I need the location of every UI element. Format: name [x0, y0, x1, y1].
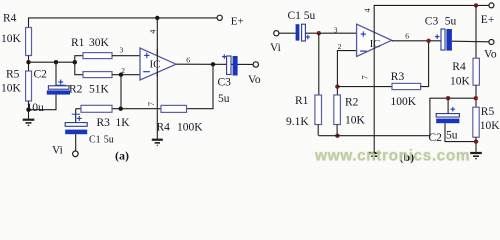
svg-text:R4: R4 [452, 61, 466, 73]
op-amp (a) vertical line through [156, 49, 158, 77]
svg-text:10K: 10K [480, 120, 500, 132]
wire C2 stem top (b) [447, 98, 449, 113]
wire R3 to feedback corner (b) [421, 41, 429, 87]
capacitor C1 (a) plus mark [72, 114, 82, 121]
node rail junction (b) [335, 134, 339, 138]
node R1 top junction (b) [317, 31, 321, 35]
svg-text:Vo: Vo [248, 74, 261, 86]
svg-text:6: 6 [186, 55, 190, 64]
node R3 right junction (a) [119, 107, 123, 111]
label 1K of R3 (a) [116, 117, 131, 129]
wire IC pin4/pin7 vertical (a) [156, 18, 158, 139]
label R2 (a) [69, 84, 83, 96]
svg-text:R3: R3 [97, 117, 111, 129]
wire C2 stem top (a) [55, 62, 57, 85]
svg-text:R3: R3 [391, 71, 405, 83]
svg-text:7: 7 [147, 102, 156, 106]
svg-text:IC: IC [370, 39, 381, 50]
wire bias node to R1/R2 (a) [29, 61, 75, 63]
wire C1 stem top (a) [75, 109, 77, 123]
wire C3 to Vo (b) [452, 40, 489, 43]
label R3 (a) [97, 117, 111, 129]
svg-text:Vi: Vi [270, 42, 281, 54]
label 10K of R5 (a) [1, 83, 22, 95]
label C1 (b) [288, 10, 302, 22]
terminal E+ (a) [217, 15, 222, 20]
svg-text:5u: 5u [446, 129, 458, 141]
svg-text:5u: 5u [304, 10, 316, 22]
svg-text:E+: E+ [231, 15, 244, 27]
capacitor C3 (b) plus mark [435, 34, 440, 39]
wire pin2 to R2 (b) [337, 51, 356, 95]
capacitor C3 (a) left plate [227, 56, 231, 75]
wire pin2 to R3 node (a) [120, 75, 122, 109]
node C2 return junction (b) [474, 139, 478, 143]
label 100K (a) [177, 122, 203, 134]
op-amp U2 triangle (b) [357, 24, 392, 56]
resistor R4 (a) 10K vertical [26, 28, 32, 56]
wire feedback R4 (a) [187, 64, 214, 108]
label 10K of R5 (b) [480, 120, 500, 132]
svg-text:10K: 10K [1, 33, 22, 45]
label Vi (b) [270, 42, 281, 54]
capacitor C1 (a) top plate [65, 123, 87, 127]
resistor R3 (a) 1K [81, 105, 112, 112]
wire C1 stem bottom (a) [75, 134, 77, 151]
node C2 tap junction (b) [446, 96, 450, 100]
wire C2 stem bottom (b) [445, 123, 476, 141]
svg-text:2: 2 [338, 42, 342, 51]
svg-text:R1: R1 [295, 95, 309, 107]
pin number 6 (b) [405, 31, 409, 40]
label 10K of R2 (b) [345, 115, 366, 127]
pin number 4 (a) [148, 30, 157, 34]
svg-text:10K: 10K [345, 115, 366, 127]
label 9.1K of R1 (b) [286, 116, 309, 128]
op-amp (b) vertical line through [373, 25, 375, 53]
resistor R1 (b) 9.1K [315, 95, 322, 125]
label R3 (b) [391, 71, 405, 83]
svg-text:C2: C2 [34, 69, 48, 81]
label (b) caption [400, 150, 415, 164]
wire C2 stem bottom (a) [29, 95, 57, 110]
ground symbol IC (b) [368, 153, 380, 159]
wire R4 to R5 (b) [475, 85, 477, 107]
wire R1 column (b) [318, 33, 320, 95]
svg-text:51K: 51K [89, 84, 110, 96]
node E+ rail junction (b) [474, 3, 478, 7]
label IC (a) [150, 59, 161, 71]
wire R3 net (b) [337, 86, 392, 88]
resistor R2 (a) 51K [83, 72, 112, 78]
capacitor C1 (b) left plate [296, 24, 300, 40]
wire output (b) [392, 40, 441, 42]
svg-text:C1: C1 [89, 135, 101, 146]
svg-text:2: 2 [121, 66, 125, 75]
terminal Vo (b) [489, 40, 494, 45]
svg-text:5u: 5u [218, 93, 230, 105]
terminal Vi (b) [274, 31, 279, 36]
label 30K of R1 (a) [89, 37, 110, 49]
wire R4 to R5 (a) [28, 56, 30, 72]
svg-text:7: 7 [361, 75, 370, 79]
svg-text:3: 3 [120, 45, 124, 54]
label C3 (a) [218, 76, 232, 88]
label (a) caption [115, 148, 129, 162]
op-amp (a) minus input mark [143, 71, 150, 73]
label R5 (a) [6, 69, 20, 81]
label C2 (a) [34, 69, 48, 81]
node R5-ground / C2 return junction (a) [26, 108, 30, 112]
capacitor C2 (b) plus mark [451, 107, 456, 112]
capacitor C2 (a) bottom plate [47, 90, 70, 94]
op-amp U1 triangle (a) [140, 48, 176, 80]
svg-text:1K: 1K [116, 117, 131, 129]
svg-text:10u: 10u [27, 102, 45, 114]
pin number 3 (b) [334, 25, 338, 34]
label IC (b) [370, 39, 381, 50]
terminal E+ (b) [489, 3, 494, 8]
pin number 4 (b) [363, 8, 372, 12]
svg-text:Vi: Vi [52, 144, 63, 156]
label R4 (a) [3, 12, 17, 24]
svg-text:5u: 5u [104, 135, 114, 146]
svg-text:100K: 100K [391, 96, 417, 108]
svg-text:R5: R5 [6, 69, 20, 81]
resistor R5 (b) 10K [473, 107, 479, 137]
label 5u of C2 (b) [446, 129, 458, 141]
capacitor C1 (a) bottom plate [65, 130, 87, 135]
wire R2 to pin2 (a) [112, 74, 140, 76]
resistor R2 (b) 10K [334, 95, 341, 125]
svg-text:6: 6 [405, 31, 409, 40]
wire IC pin7 to ground (b) [373, 53, 375, 152]
label C2 (b) [429, 132, 443, 144]
pin number 6 (a) [186, 55, 190, 64]
wire output (a) [176, 63, 253, 65]
label R1 (b) [295, 95, 309, 107]
svg-text:5u: 5u [445, 15, 457, 27]
svg-text:www.cntronics.com: www.cntronics.com [314, 148, 470, 165]
capacitor C3 (b) left plate [441, 29, 445, 50]
pin number 3 (a) [120, 45, 124, 54]
label 10K of R4 (b) [450, 75, 471, 87]
node R3 tee junction (b) [335, 84, 339, 88]
node R4/R5 divider junction (b) [474, 96, 478, 100]
svg-text:Vo: Vo [484, 49, 497, 61]
label C3 (b) [425, 15, 439, 27]
ground symbol IC (a) [152, 140, 163, 146]
svg-text:R5: R5 [481, 106, 495, 118]
wire R5 to ground (b) [475, 137, 477, 152]
svg-text:4: 4 [148, 30, 157, 34]
label R5 (b) [481, 106, 495, 118]
svg-text:R4: R4 [3, 12, 17, 24]
wire top supply rail (a) [29, 18, 218, 28]
svg-text:R2: R2 [69, 84, 83, 96]
node pin2 junction (a) [119, 73, 123, 77]
svg-text:C3: C3 [218, 76, 232, 88]
label 5u of C1 (b) [304, 10, 316, 22]
op-amp (b) plus input mark [361, 31, 366, 36]
resistor R1 (a) 30K [83, 53, 112, 59]
svg-text:R2: R2 [345, 96, 359, 108]
pin number 2 (b) [338, 42, 342, 51]
resistor R4 (a) 100K [161, 105, 187, 112]
wire R5 to ground (a) [28, 101, 30, 120]
capacitor C1 (b) plus mark [306, 35, 311, 40]
svg-text:100K: 100K [177, 122, 203, 134]
wire R2 to rail (b) [336, 125, 338, 136]
label C1 (a) [89, 135, 101, 146]
ground symbol R5 (b) [470, 153, 482, 159]
op-amp (b) minus input mark [360, 50, 367, 52]
capacitor C2 (b) bottom plate [436, 119, 459, 124]
svg-text:30K: 30K [89, 37, 110, 49]
wire R1/R2 left connector (a) [75, 56, 83, 75]
svg-text:C3: C3 [425, 15, 439, 27]
resistor R3 (b) 100K [392, 83, 421, 89]
label 100K of R3 (b) [391, 96, 417, 108]
pin number 7 (b) [361, 75, 370, 79]
pin number 2 (a) [121, 66, 125, 75]
wire R1 to pin3 (a) [112, 55, 140, 57]
node R1/R2 left junction (a) [73, 60, 77, 64]
svg-text:4: 4 [363, 8, 372, 12]
wire IC pin4 to top rail (b) [374, 5, 489, 25]
label Vo (a) [248, 74, 261, 86]
op-amp (a) plus input mark [144, 53, 149, 58]
capacitor C2 (a) plus mark [56, 80, 66, 86]
terminal Vi (a) [73, 151, 79, 157]
wire C1 to pin3 (b) [305, 32, 356, 34]
node C2 tap (a) [54, 60, 58, 64]
wire bias rail (b) [319, 98, 476, 136]
resistor R4 (b) 10K [473, 58, 479, 85]
label R4 (b) [452, 61, 466, 73]
label 5u of C3 (b) [445, 15, 457, 27]
svg-text:R4: R4 [157, 122, 171, 134]
wire Vi to C1 (b) [279, 32, 296, 34]
svg-text:9.1K: 9.1K [286, 116, 309, 128]
node output junction (a) [211, 62, 215, 66]
ground symbol left (a) [23, 120, 35, 126]
pin number 7 (a) [147, 102, 156, 106]
svg-text:E+: E+ [481, 14, 495, 26]
wire R1 to rail (b) [317, 125, 319, 136]
label 10K of R4 (a) [1, 33, 22, 45]
terminal Vo (a) [253, 62, 258, 67]
svg-text:10K: 10K [1, 83, 22, 95]
label R4 100K (a) [157, 122, 171, 134]
resistor R5 (a) 10K vertical [26, 71, 32, 101]
label R2 (b) [345, 96, 359, 108]
capacitor C1 (b) right plate [302, 24, 306, 41]
label Vo (b) [484, 49, 497, 61]
label 51K of R2 (a) [89, 84, 110, 96]
capacitor C3 (b) right plate [446, 29, 452, 51]
svg-text:IC: IC [150, 59, 161, 71]
svg-text:3: 3 [334, 25, 338, 34]
svg-text:(a): (a) [115, 148, 129, 162]
label 5u of C3 (a) [218, 93, 230, 105]
wire R3-R4 net (a) [76, 108, 161, 110]
label 10u of C2 (a) [27, 102, 45, 114]
label 5u of C1 (a) [104, 135, 114, 146]
label E+ (b) [481, 14, 495, 26]
svg-text:R1: R1 [71, 37, 85, 49]
svg-text:10K: 10K [450, 75, 471, 87]
capacitor C2 (a) top plate [48, 86, 69, 89]
node junction top rail to IC pin4 (a) [155, 16, 159, 20]
node output junction (b) [426, 39, 430, 43]
label Vi (a) [52, 144, 63, 156]
label E+ (a) [231, 15, 244, 27]
label R1 (a) [71, 37, 85, 49]
capacitor C3 (a) plus mark [222, 54, 227, 59]
wire E+ to R4 (b) [475, 5, 477, 58]
capacitor C2 (b) top plate [436, 114, 459, 117]
svg-text:C1: C1 [288, 10, 302, 22]
capacitor C3 (a) right plate [233, 56, 238, 76]
svg-text:C2: C2 [429, 132, 443, 144]
node bias divider junction (a) [26, 60, 30, 64]
watermark www.cntronics.com [314, 148, 470, 165]
